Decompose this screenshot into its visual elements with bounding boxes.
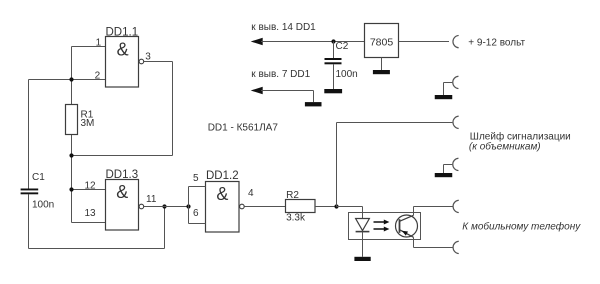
svg-text:R2: R2	[286, 190, 299, 201]
svg-text:к выв. 14 DD1: к выв. 14 DD1	[251, 22, 316, 33]
svg-text:&: &	[117, 39, 129, 59]
svg-text:DD1.1: DD1.1	[106, 27, 139, 39]
svg-text:DD1.2: DD1.2	[206, 170, 239, 182]
svg-text:6: 6	[193, 208, 199, 219]
svg-text:+ 9-12 вольт: + 9-12 вольт	[468, 37, 525, 48]
svg-text:100n: 100n	[336, 69, 358, 80]
svg-text:(к объемникам): (к объемникам)	[469, 140, 541, 152]
svg-text:4: 4	[248, 188, 254, 199]
svg-text:3: 3	[145, 52, 151, 63]
svg-text:1: 1	[96, 38, 102, 49]
svg-text:&: &	[116, 182, 128, 202]
svg-text:DD1.3: DD1.3	[106, 169, 139, 181]
svg-text:13: 13	[85, 208, 97, 219]
svg-text:7805: 7805	[370, 37, 394, 49]
svg-text:100n: 100n	[32, 200, 54, 211]
svg-text:&: &	[216, 184, 228, 204]
svg-text:11: 11	[146, 194, 157, 205]
svg-text:3M: 3M	[81, 118, 95, 129]
svg-text:C2: C2	[336, 41, 349, 52]
svg-text:К мобильному телефону: К мобильному телефону	[462, 221, 581, 233]
svg-text:DD1 - К561ЛА7: DD1 - К561ЛА7	[208, 122, 279, 133]
svg-text:12: 12	[85, 181, 97, 192]
svg-text:3.3k: 3.3k	[286, 213, 306, 224]
svg-text:2: 2	[95, 71, 101, 82]
svg-text:5: 5	[193, 173, 199, 184]
svg-text:C1: C1	[32, 172, 45, 183]
svg-text:к выв. 7 DD1: к выв. 7 DD1	[251, 69, 310, 80]
